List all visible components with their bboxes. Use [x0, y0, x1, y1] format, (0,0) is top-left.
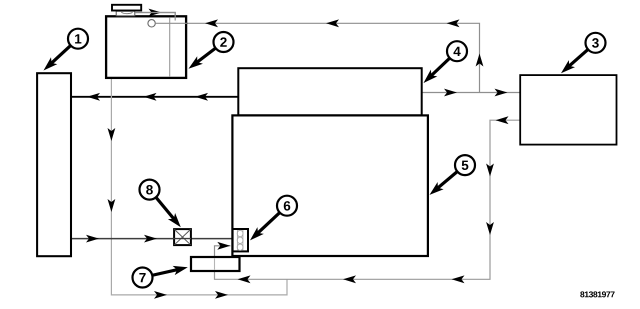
bottle internal partition line [169, 18, 171, 77]
pump suction line visible through box 7 [214, 258, 216, 270]
filler neck liquid squiggle [121, 12, 132, 13]
hose: radiator outlet to valve 8 and thermostat 6 (y=238.6) [71, 238, 233, 240]
hose: pump box 7 up-stub into thermostat 6 (y=245.8) [215, 246, 231, 257]
callout 4 leader arrow [429, 57, 450, 77]
hose: bottle drain down x=111.4, bottom run y=294.9, riser x=287 [111, 79, 287, 295]
box 4: upper engine block / intake (item 4) [238, 68, 421, 115]
callout 6 leader arrow [256, 212, 281, 235]
callout 8 leader arrow [155, 197, 175, 222]
box 3: heater core (item 3) [520, 75, 616, 145]
flow arrow down on return riser [486, 164, 494, 177]
flow arrow left on box3 stub [496, 116, 509, 124]
callout 2 leader arrow [195, 48, 217, 64]
flow arrow right on overflow line [149, 9, 162, 17]
hose: return line box3 -> down x=488.5 -> left y=279.1 -> up into pump box 7 [215, 120, 520, 279]
flow arrow right into thermostat [217, 242, 230, 250]
bottle filler neck [116, 11, 135, 16]
component 6: thermostat [233, 229, 248, 251]
figure part number [580, 291, 584, 297]
callout 3 leader arrow [567, 49, 589, 68]
flow arrow up on vent riser x=479.5 [476, 54, 484, 67]
callout 1 leader arrow [49, 45, 71, 65]
flow arrow right [444, 89, 457, 97]
flow arrow left on return bottom [238, 275, 251, 283]
hose: filler-cap overflow into bottle [135, 13, 175, 21]
callout 2 circle [214, 32, 234, 52]
flow arrow left on vent line [326, 19, 339, 27]
vent line segment inside bottle (circle to right wall) [155, 22, 187, 24]
flow arrow left on vent line [205, 19, 218, 27]
flow arrow right on bottom run [215, 291, 228, 299]
flow arrow right on outlet hose [144, 235, 157, 243]
flow arrow right on outlet hose [86, 235, 99, 243]
flow arrow down on return riser [486, 222, 494, 235]
callout 7 leader arrow [151, 269, 180, 275]
callout 5 circle [455, 155, 475, 175]
callout 4 circle [447, 41, 467, 61]
component 8: shut-off valve (box with X) [173, 229, 191, 245]
box 1: radiator [37, 73, 71, 256]
box 5: engine block (item 5) [232, 115, 428, 256]
hose: degas bottle vent line to right loop (y=23) [155, 23, 479, 92]
flow arrow left on vent line [447, 19, 460, 27]
hose: box4 to box3 (y=92.5) [421, 92, 520, 94]
callout 6 circle [277, 196, 297, 216]
bottle vent nipple circle [148, 20, 155, 27]
flow arrow left on return bottom [452, 275, 465, 283]
bottle pressure cap [112, 5, 141, 11]
flow arrow down on drain [108, 199, 116, 212]
box 2: coolant recovery bottle body [106, 16, 186, 78]
outlet hose over valve [173, 238, 191, 240]
flow arrow left on top hose [144, 93, 157, 101]
flow arrow right [495, 89, 508, 97]
callout 1 circle [68, 29, 88, 49]
callout 7 circle [133, 268, 153, 288]
hose: radiator top hose (y=96.8, box4 to radiator) [71, 96, 240, 98]
callout 8 circle [140, 180, 160, 200]
overflow line drop into bottle [135, 13, 175, 21]
callout 3 circle [586, 33, 606, 53]
flow arrow left on top hose [195, 93, 208, 101]
callout 5 leader arrow [436, 171, 459, 190]
flow arrow right on bottom run [154, 291, 167, 299]
flow arrow left on return bottom [343, 275, 356, 283]
flow arrow down on drain [108, 128, 116, 141]
flow arrow left on top hose [87, 93, 100, 101]
component 7: water pump housing [191, 257, 240, 271]
